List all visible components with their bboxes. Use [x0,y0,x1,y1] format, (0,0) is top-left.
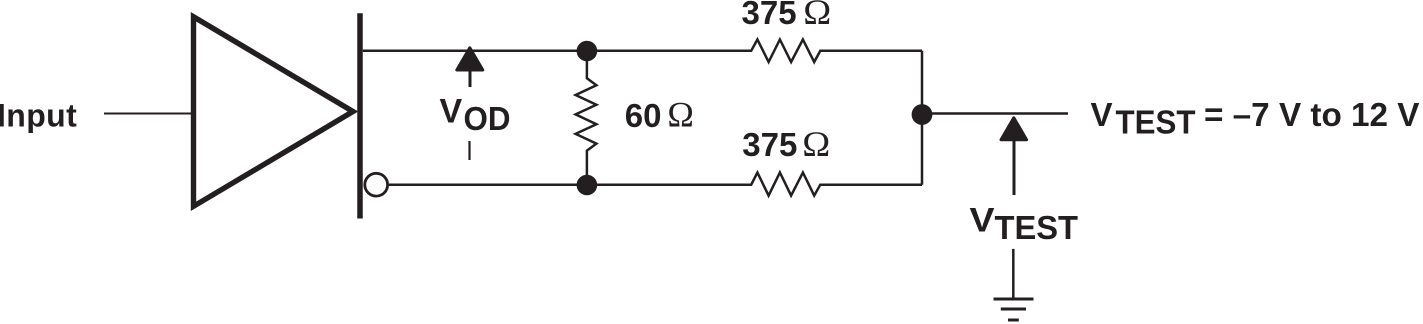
svg-text:V: V [1091,96,1113,133]
svg-text:Input: Input [0,98,77,134]
svg-text:TEST: TEST [995,209,1079,246]
svg-text:V: V [970,202,995,240]
svg-text:Ω: Ω [802,124,830,164]
svg-text:TEST: TEST [1116,104,1196,141]
svg-text:60: 60 [625,97,662,134]
svg-text:V: V [440,92,463,130]
svg-text:Ω: Ω [667,95,694,135]
svg-text:Ω: Ω [803,0,831,32]
svg-text:375: 375 [742,0,797,31]
svg-text:= –7 V to 12 V: = –7 V to 12 V [1204,96,1420,133]
svg-text:OD: OD [464,100,511,137]
svg-text:375: 375 [742,126,797,163]
